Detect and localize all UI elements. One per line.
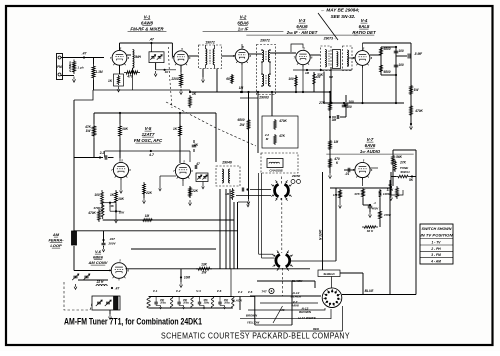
svg-text:45K: 45K [202, 299, 208, 302]
svg-text:6AL5: 6AL5 [359, 24, 370, 29]
svg-text:82 K: 82 K [367, 229, 374, 233]
svg-text:IN TV POSITION: IN TV POSITION [421, 234, 454, 238]
svg-text:V-1: V-1 [144, 15, 151, 20]
svg-text:470: 470 [126, 75, 133, 79]
svg-text:470K: 470K [414, 109, 423, 113]
svg-text:V-7: V-7 [367, 137, 374, 142]
svg-text:6BE6: 6BE6 [93, 255, 104, 260]
svg-text:3M: 3M [332, 118, 337, 122]
svg-text:V-2: V-2 [176, 289, 181, 293]
svg-text:1M: 1M [333, 193, 338, 197]
svg-text:6AU6: 6AU6 [296, 24, 308, 29]
svg-text:1K: 1K [110, 193, 115, 197]
svg-text:SEE SN-32.: SEE SN-32. [331, 14, 356, 19]
svg-text:V-1: V-1 [153, 289, 158, 293]
svg-text:FM: FM [57, 65, 62, 69]
svg-text:6800: 6800 [383, 70, 390, 74]
svg-text:1M: 1M [145, 214, 150, 218]
svg-text:V-3: V-3 [238, 290, 243, 294]
svg-text:100: 100 [288, 77, 294, 81]
svg-text:BROWN: BROWN [299, 310, 312, 314]
svg-text:1ST IF: 1ST IF [238, 27, 249, 32]
svg-text:470K: 470K [278, 119, 287, 123]
svg-text:BLUE: BLUE [365, 289, 375, 293]
svg-text:2 - PH: 2 - PH [430, 247, 441, 251]
svg-text:V-6: V-6 [95, 249, 102, 254]
svg-text:45K: 45K [223, 299, 229, 302]
svg-text:29072: 29072 [259, 39, 270, 43]
svg-text:1K: 1K [108, 79, 113, 83]
svg-text:.5 MF: .5 MF [414, 52, 423, 56]
svg-text:H-12 WHITE: H-12 WHITE [298, 316, 316, 320]
svg-text:FM-RF & MIXER: FM-RF & MIXER [130, 27, 164, 32]
svg-text:.01: .01 [345, 172, 350, 176]
svg-text:.1: .1 [373, 201, 376, 205]
svg-text:470K: 470K [87, 211, 96, 215]
svg-text:100: 100 [94, 193, 100, 197]
svg-text:200Ω: 200Ω [182, 302, 189, 305]
svg-text:1M: 1M [239, 86, 244, 90]
svg-text:470K: 470K [383, 213, 392, 217]
svg-text:45K: 45K [159, 299, 165, 302]
svg-text:CHASSIS: CHASSIS [269, 169, 282, 173]
svg-text:29073→: 29073→ [323, 37, 337, 41]
svg-text:6AV6: 6AV6 [365, 143, 376, 148]
svg-text:1.1M: 1.1M [95, 70, 102, 74]
svg-text:1K: 1K [192, 92, 197, 96]
svg-text:← MAY BE 29084;: ← MAY BE 29084; [321, 8, 360, 13]
svg-text:13K: 13K [201, 263, 208, 267]
svg-text:22K: 22K [191, 189, 199, 193]
svg-text:SWCH: SWCH [400, 170, 410, 174]
svg-text:19072: 19072 [205, 41, 215, 45]
svg-text:27K: 27K [399, 161, 407, 165]
svg-text:1M: 1M [225, 192, 230, 196]
svg-text:29063: 29063 [258, 96, 269, 100]
svg-text:.47: .47 [115, 287, 120, 291]
svg-text:AM-FM Tuner 7T1, for Combinati: AM-FM Tuner 7T1, for Combination 24DK1 [64, 317, 202, 327]
svg-text:FERRA-: FERRA- [48, 238, 64, 243]
svg-text:100: 100 [398, 49, 404, 53]
svg-text:3 - FM: 3 - FM [431, 253, 441, 257]
svg-text:2.2MEG: 2.2MEG [68, 61, 72, 73]
svg-text:2W: 2W [239, 123, 246, 127]
svg-text:AM CONV: AM CONV [88, 260, 108, 265]
svg-text:2.2: 2.2 [99, 151, 105, 155]
svg-text:V-6: V-6 [217, 289, 222, 293]
svg-text:6AW8: 6AW8 [141, 21, 154, 26]
svg-text:6BA6: 6BA6 [237, 21, 249, 26]
svg-text:V-5: V-5 [145, 126, 152, 131]
svg-text:47: 47 [195, 162, 200, 166]
svg-text:10M: 10M [184, 276, 191, 280]
svg-text:N 3240: N 3240 [319, 229, 323, 240]
svg-text:47K: 47K [353, 192, 360, 196]
svg-text:200Ω: 200Ω [203, 302, 210, 305]
svg-text:200Ω: 200Ω [223, 302, 230, 305]
svg-text:27K: 27K [318, 101, 326, 105]
svg-text:V-3: V-3 [299, 18, 306, 23]
svg-text:100: 100 [398, 63, 404, 67]
svg-text:YELLOW: YELLOW [247, 321, 260, 325]
svg-text:BLACK: BLACK [232, 299, 243, 303]
svg-text:V-6: V-6 [248, 290, 253, 294]
svg-text:10K: 10K [122, 127, 129, 131]
svg-text:2W: 2W [201, 271, 208, 275]
svg-text:33K: 33K [317, 73, 324, 77]
svg-text:400V: 400V [371, 207, 378, 211]
svg-text:10K: 10K [118, 197, 125, 201]
svg-text:12AT7: 12AT7 [142, 132, 155, 137]
svg-text:V-2: V-2 [240, 15, 247, 20]
svg-text:29050: 29050 [291, 174, 301, 178]
svg-text:4 - AM: 4 - AM [430, 259, 441, 263]
svg-text:BROWN: BROWN [246, 314, 258, 318]
svg-text:200V: 200V [107, 242, 116, 246]
svg-text:RATIO DET: RATIO DET [352, 30, 376, 35]
svg-text:2200: 2200 [170, 77, 178, 81]
svg-text:47K: 47K [278, 134, 286, 138]
svg-text:1K: 1K [173, 127, 178, 131]
svg-text:45K: 45K [182, 299, 188, 302]
svg-text:FM OSC, AFC: FM OSC, AFC [134, 138, 163, 143]
svg-text:.047: .047 [109, 237, 115, 241]
svg-text:SWITCH SHOWN: SWITCH SHOWN [422, 227, 453, 231]
svg-text:1MH: 1MH [134, 55, 141, 59]
svg-text:LOOP: LOOP [50, 243, 62, 248]
svg-text:V-3: V-3 [196, 289, 201, 293]
svg-text:100: 100 [348, 100, 354, 104]
svg-text:1M: 1M [334, 140, 339, 144]
svg-text:1M: 1M [305, 71, 310, 75]
svg-text:AM: AM [52, 232, 60, 237]
svg-text:68: 68 [226, 77, 230, 81]
svg-text:56K: 56K [396, 155, 403, 159]
svg-text:V-4: V-4 [361, 18, 368, 23]
svg-text:5K: 5K [409, 178, 414, 182]
svg-text:470K: 470K [93, 206, 102, 210]
svg-text:1 μh: 1 μh [77, 66, 83, 70]
svg-text:6800: 6800 [383, 47, 390, 51]
svg-text:22 H: 22 H [96, 280, 104, 284]
svg-text:22K: 22K [145, 191, 153, 195]
svg-text:200Ω: 200Ω [159, 302, 166, 305]
svg-text:29046: 29046 [221, 161, 232, 165]
svg-text:747: 747 [261, 290, 266, 294]
svg-text:6800: 6800 [237, 118, 244, 122]
svg-text:SHIELD: SHIELD [323, 272, 335, 276]
svg-text:SCHEMATIC COURTESY PACKARD-BEL: SCHEMATIC COURTESY PACKARD-BELL COMPANY [161, 331, 350, 341]
svg-text:1 - TV: 1 - TV [432, 241, 442, 245]
